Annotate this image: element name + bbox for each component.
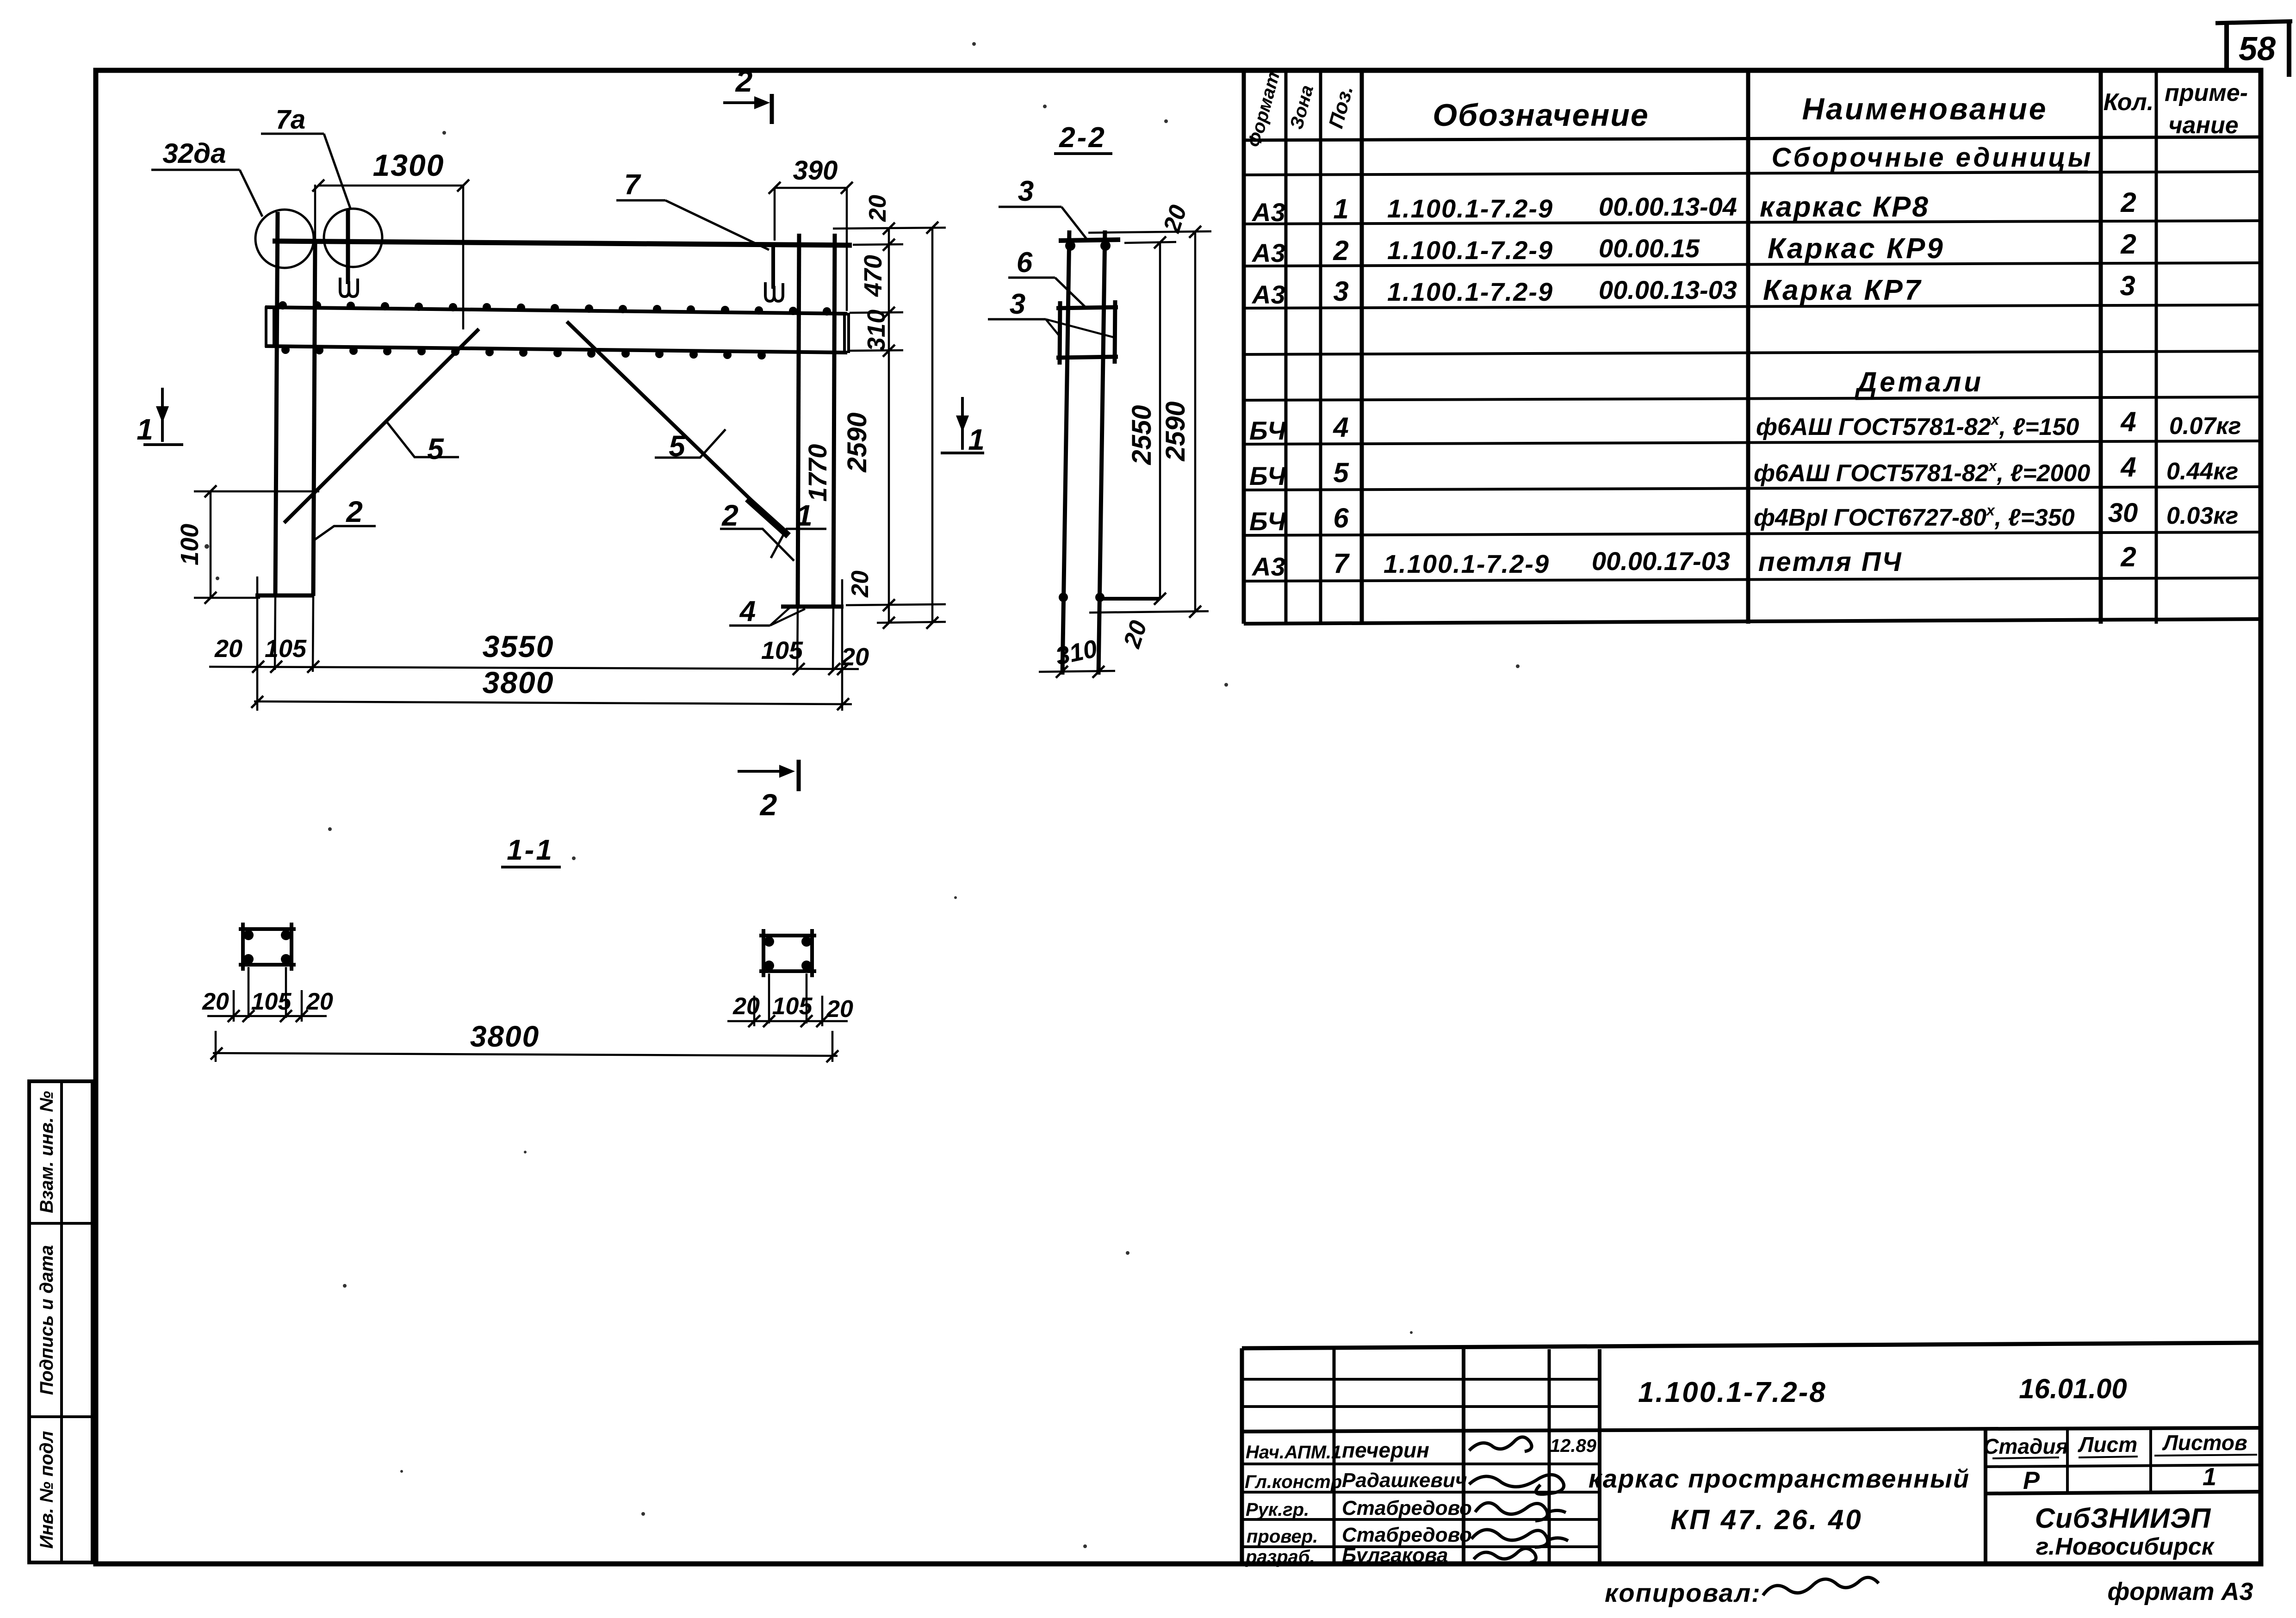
- svg-text:6: 6: [1017, 247, 1033, 279]
- beam bottom stirrup dots: [281, 346, 766, 360]
- svg-text:БЧ: БЧ: [1249, 461, 1286, 490]
- left tie bar: [255, 577, 314, 711]
- svg-text:105: 105: [251, 988, 292, 1015]
- svg-text:2: 2: [2120, 541, 2136, 572]
- table row 1: каркас КР8: [1251, 187, 2136, 227]
- label 5 right with leader: [655, 429, 726, 463]
- table row 4: [1249, 406, 2241, 445]
- svg-text:Гл.констр: Гл.констр: [1245, 1472, 1342, 1492]
- svg-text:20: 20: [732, 993, 760, 1020]
- svg-text:20: 20: [826, 996, 853, 1023]
- svg-text:7: 7: [1333, 548, 1350, 579]
- svg-text:чание: чание: [2168, 112, 2238, 139]
- beam right end cap: [844, 313, 849, 353]
- signature scribbles: [1469, 1437, 1568, 1562]
- table row 7: петля ПЧ: [1251, 541, 2136, 581]
- svg-text:1: 1: [137, 413, 153, 446]
- right dimension stack ticks: [883, 222, 938, 629]
- dim 100 left: [176, 485, 319, 604]
- svg-text:00.00.15: 00.00.15: [1599, 234, 1700, 263]
- diagonal bar 5 right: [567, 322, 788, 536]
- svg-text:32да: 32да: [162, 138, 226, 169]
- title block texts: [1589, 1373, 2257, 1560]
- svg-text:5: 5: [1333, 457, 1349, 488]
- svg-text:3: 3: [1333, 276, 1348, 307]
- diagonal bar 5 left: [284, 329, 479, 523]
- svg-text:Инв. № подл: Инв. № подл: [37, 1431, 57, 1549]
- svg-text:470: 470: [859, 255, 887, 297]
- svg-text:2550: 2550: [1127, 405, 1157, 465]
- right leg inner chord: [797, 234, 799, 671]
- svg-text:Рук.гр.: Рук.гр.: [1246, 1500, 1309, 1520]
- svg-text:1770: 1770: [803, 444, 832, 502]
- svg-text:приме-: приме-: [2165, 80, 2248, 106]
- svg-text:1300: 1300: [373, 148, 445, 182]
- label 1 right leg with leader: [771, 499, 826, 558]
- svg-text:Наименование: Наименование: [1802, 92, 2048, 126]
- svg-text:7а: 7а: [276, 105, 306, 135]
- svg-text:Обозначение: Обозначение: [1433, 98, 1649, 133]
- svg-text:1.100.1-7.2-9: 1.100.1-7.2-9: [1387, 194, 1553, 223]
- svg-text:1: 1: [2203, 1463, 2216, 1491]
- right dimension stack texts: [803, 195, 891, 598]
- svg-text:00.00.13-04: 00.00.13-04: [1599, 192, 1737, 221]
- svg-text:0.44кг: 0.44кг: [2166, 458, 2238, 485]
- svg-text:формат А3: формат А3: [2107, 1578, 2253, 1606]
- svg-text:печерин: печерин: [1342, 1438, 1429, 1462]
- dim 3800 bottom: [251, 665, 852, 710]
- section 1-1 right box extensions: [754, 973, 832, 1062]
- section 2-2 left chord: [1062, 230, 1069, 675]
- svg-text:Кол.: Кол.: [2104, 89, 2154, 116]
- section 2-2 dim 310: [1039, 635, 1115, 678]
- svg-text:3: 3: [1010, 288, 1025, 320]
- svg-text:5: 5: [427, 432, 444, 465]
- svg-text:1.100.1-7.2-8: 1.100.1-7.2-8: [1638, 1376, 1827, 1408]
- section 2-2 bottom tie with dots: [1059, 593, 1159, 602]
- section 1-1 title: [501, 834, 561, 867]
- svg-text:А3: А3: [1251, 198, 1285, 227]
- lifting loop circle 7а: [324, 209, 382, 267]
- svg-text:3: 3: [1018, 175, 1034, 207]
- svg-text:Р: Р: [2023, 1467, 2040, 1494]
- section 1-1 left box extensions: [216, 967, 302, 1062]
- section mark 2 top: [723, 64, 772, 124]
- section 2-2 dim 20 bottom: [1089, 611, 1209, 651]
- lifting loop circle 32да: [255, 210, 314, 268]
- svg-text:А3: А3: [1251, 552, 1285, 581]
- svg-text:3550: 3550: [483, 629, 554, 663]
- svg-text:20: 20: [214, 635, 242, 663]
- svg-text:Стабредово: Стабредово: [1342, 1497, 1472, 1519]
- table header texts: [1244, 69, 2248, 149]
- svg-text:г.Новосибирск: г.Новосибирск: [2036, 1533, 2215, 1560]
- section mark 2 bottom: [738, 760, 799, 822]
- svg-text:1: 1: [1333, 193, 1348, 224]
- svg-text:БЧ: БЧ: [1249, 507, 1286, 536]
- svg-text:4: 4: [2120, 406, 2136, 437]
- svg-text:105: 105: [265, 635, 307, 663]
- lifting loop stem 7а: [340, 209, 358, 297]
- section 2-2 dim line 2550: [1127, 236, 1166, 605]
- right dimension stack extension lines: [833, 228, 946, 623]
- svg-text:разраб.: разраб.: [1245, 1547, 1315, 1567]
- section 2-2 label 3 bottom: [988, 288, 1114, 337]
- svg-text:20: 20: [841, 643, 869, 671]
- svg-text:2: 2: [735, 64, 753, 98]
- svg-text:2-2: 2-2: [1059, 122, 1106, 154]
- svg-text:4: 4: [1333, 412, 1348, 443]
- svg-text:20: 20: [847, 570, 874, 598]
- title block outline: [1242, 1343, 2261, 1564]
- section 2-2 right chord: [1098, 230, 1105, 675]
- svg-text:7: 7: [624, 169, 641, 201]
- section 1-1 left stirrup box: [239, 923, 296, 971]
- svg-text:2590: 2590: [842, 412, 872, 472]
- section 1-1 right box chord dots: [764, 936, 812, 971]
- section 2-2 title: [1054, 122, 1112, 154]
- svg-text:Листов: Листов: [2162, 1431, 2247, 1455]
- svg-text:2: 2: [1333, 235, 1348, 266]
- svg-text:Радашкевич: Радашкевич: [1342, 1469, 1467, 1492]
- svg-text:ф6АШ ГОСТ5781-82х, ℓ=2000: ф6АШ ГОСТ5781-82х, ℓ=2000: [1754, 458, 2090, 487]
- section 2-2 label 3 top: [999, 175, 1086, 239]
- section 2-2 dim line 2590: [1160, 226, 1201, 618]
- svg-text:100: 100: [176, 524, 204, 565]
- table row: details heading: [1855, 366, 1990, 399]
- top chord bar: [273, 241, 852, 245]
- svg-text:4: 4: [2120, 452, 2136, 483]
- footer notes: [1605, 1577, 2253, 1607]
- svg-text:Лист: Лист: [2078, 1432, 2137, 1457]
- svg-text:310: 310: [863, 310, 890, 351]
- svg-text:3800: 3800: [483, 665, 554, 700]
- svg-text:Взам. инв. №: Взам. инв. №: [37, 1091, 57, 1213]
- svg-text:СибЗНИИЭП: СибЗНИИЭП: [2035, 1503, 2211, 1534]
- title block signature rows: [1245, 1436, 1597, 1567]
- svg-text:3: 3: [2120, 270, 2135, 301]
- svg-text:3800: 3800: [470, 1020, 540, 1053]
- svg-text:КП 47. 26. 40: КП 47. 26. 40: [1670, 1504, 1863, 1535]
- dim 390: [769, 155, 853, 311]
- beam left end cap: [266, 306, 274, 348]
- left leg inner chord: [313, 185, 315, 672]
- section 2-2 label 6: [1008, 247, 1086, 307]
- svg-text:2: 2: [2120, 229, 2136, 260]
- label 4 with leader: [729, 595, 805, 627]
- svg-text:2: 2: [721, 499, 738, 532]
- svg-text:105: 105: [761, 637, 803, 664]
- svg-text:Стадия: Стадия: [1983, 1434, 2068, 1458]
- svg-text:Стабредово: Стабредово: [1342, 1524, 1472, 1546]
- svg-text:20: 20: [306, 988, 333, 1015]
- label 7 with leader: [616, 169, 769, 250]
- svg-text:1.100.1-7.2-9: 1.100.1-7.2-9: [1387, 277, 1553, 306]
- dim row 3550 with side insets: [209, 629, 869, 675]
- svg-text:0.07кг: 0.07кг: [2169, 413, 2241, 440]
- svg-text:12.89: 12.89: [1550, 1436, 1597, 1456]
- label 2 right with leader: [720, 499, 794, 561]
- scan speckles: [205, 42, 1520, 1548]
- section 2-2 top bar 3: [1059, 240, 1120, 251]
- svg-text:Булгакова: Булгакова: [1342, 1544, 1448, 1567]
- label 5 left with leader: [387, 422, 459, 465]
- dim 1300: [312, 148, 469, 329]
- beam top stirrup dots: [279, 301, 831, 316]
- svg-text:2: 2: [346, 495, 363, 528]
- svg-text:Карка КР7: Карка КР7: [1763, 274, 1922, 306]
- svg-text:1: 1: [968, 423, 985, 456]
- svg-text:провер.: провер.: [1247, 1526, 1318, 1547]
- svg-text:1.100.1-7.2-9: 1.100.1-7.2-9: [1384, 549, 1550, 578]
- section 1-1 left dims 20 105 20: [202, 988, 333, 1022]
- svg-text:00.00.17-03: 00.00.17-03: [1592, 546, 1730, 576]
- svg-text:Каркас КР9: Каркас КР9: [1768, 233, 1945, 265]
- table row 5: [1249, 452, 2238, 490]
- svg-text:2: 2: [759, 787, 777, 822]
- left margin stamp block: [29, 1081, 93, 1562]
- right leg outer chord: [833, 234, 835, 671]
- page number box 58: [2215, 21, 2292, 77]
- section 2-2 dim 20 top: [1088, 202, 1211, 243]
- label 32да with leader: [151, 138, 262, 217]
- svg-text:16.01.00: 16.01.00: [2019, 1373, 2127, 1404]
- svg-text:4: 4: [739, 595, 756, 627]
- section 1-1 dim 3800: [211, 1020, 838, 1062]
- rebar 7 vertical with hook: [765, 244, 783, 301]
- section 1-1 right dims 20 105 20: [727, 993, 853, 1027]
- svg-text:А3: А3: [1251, 238, 1285, 267]
- table row 6: [1249, 498, 2238, 536]
- svg-text:Детали: Детали: [1855, 366, 1984, 397]
- svg-text:1: 1: [796, 499, 813, 532]
- svg-text:20: 20: [202, 988, 229, 1015]
- label 2 left with leader: [314, 495, 376, 540]
- svg-text:ф6АШ ГОСТ5781-82х, ℓ=150: ф6АШ ГОСТ5781-82х, ℓ=150: [1756, 411, 2079, 440]
- svg-text:каркас пространственный: каркас пространственный: [1589, 1464, 1970, 1493]
- table row 3: Карка КР7: [1251, 270, 2135, 309]
- svg-text:2590: 2590: [1160, 401, 1191, 461]
- svg-text:БЧ: БЧ: [1249, 416, 1286, 445]
- section 1-1 left box chord dots: [243, 930, 291, 964]
- svg-text:Сборочные единицы: Сборочные единицы: [1772, 143, 2093, 173]
- svg-text:105: 105: [772, 993, 813, 1020]
- parts table grid: [1244, 70, 2261, 624]
- svg-text:20: 20: [864, 195, 891, 222]
- table row 2: Каркас КР9: [1251, 229, 2136, 267]
- svg-text:А3: А3: [1251, 280, 1285, 309]
- section 1-1 right stirrup box: [759, 929, 816, 977]
- right tie bar 4: [781, 579, 844, 711]
- label 7а with leader: [261, 105, 350, 208]
- svg-text:ф4ВрI ГОСТ6727-80х, ℓ=350: ф4ВрI ГОСТ6727-80х, ℓ=350: [1754, 502, 2075, 531]
- svg-text:копировал:: копировал:: [1605, 1578, 1761, 1607]
- beam bottom edge: [265, 346, 847, 353]
- svg-text:390: 390: [793, 155, 838, 186]
- beam top edge: [265, 307, 847, 314]
- svg-text:1-1: 1-1: [507, 834, 554, 866]
- left leg outer chord: [275, 212, 278, 670]
- section mark 1 right: [941, 397, 985, 456]
- section 2-2 stirrup box 6: [1056, 300, 1118, 365]
- svg-text:58: 58: [2239, 31, 2276, 68]
- svg-text:петля ПЧ: петля ПЧ: [1758, 547, 1903, 577]
- svg-text:Подпись и дата: Подпись и дата: [37, 1245, 57, 1395]
- section mark 1 left: [137, 388, 183, 446]
- svg-text:0.03кг: 0.03кг: [2166, 502, 2238, 529]
- svg-text:2: 2: [2120, 187, 2136, 218]
- svg-text:1.100.1-7.2-9: 1.100.1-7.2-9: [1387, 236, 1553, 265]
- svg-text:Нач.АПМ.1: Нач.АПМ.1: [1246, 1442, 1341, 1463]
- table row: assembly units heading: [1772, 143, 2093, 173]
- svg-text:30: 30: [2108, 498, 2138, 528]
- svg-text:6: 6: [1333, 502, 1349, 533]
- svg-text:00.00.13-03: 00.00.13-03: [1599, 275, 1737, 304]
- svg-text:каркас КР8: каркас КР8: [1760, 191, 1930, 223]
